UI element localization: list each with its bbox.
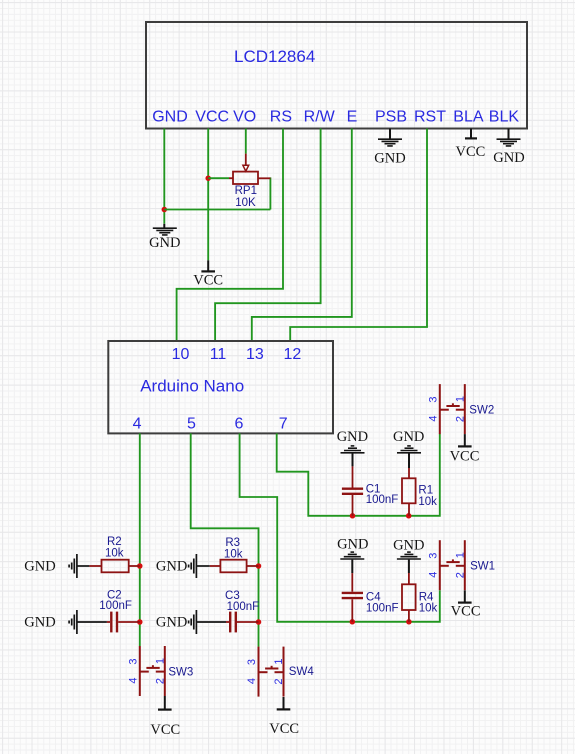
- svg-text:1: 1: [454, 396, 466, 402]
- R4 label: [419, 592, 434, 604]
- SW3 pin 1: [154, 658, 166, 664]
- GND net label R4: [393, 537, 424, 553]
- svg-text:4: 4: [127, 677, 139, 683]
- SW4 pin 2: [273, 679, 285, 685]
- SW2 pin 2: [454, 416, 466, 422]
- svg-text:GND: GND: [156, 615, 187, 631]
- switch SW1: [440, 540, 465, 590]
- LCD pin label R/W: [304, 109, 336, 126]
- svg-text:BLK: BLK: [489, 109, 520, 126]
- ground symbol LCD GND: [153, 224, 177, 235]
- svg-text:5: 5: [187, 416, 196, 433]
- vcc symbol SW2: [458, 434, 472, 446]
- potentiometer RP1: [229, 154, 270, 184]
- ground symbol R4: [397, 552, 421, 573]
- Arduino pin label 10: [172, 346, 190, 363]
- vcc symbol SW4: [277, 697, 291, 709]
- svg-text:LCD12864: LCD12864: [234, 47, 315, 66]
- svg-text:GND: GND: [337, 537, 368, 553]
- svg-text:GND: GND: [24, 559, 55, 575]
- C4 value 100nF: [366, 603, 399, 615]
- svg-text:11: 11: [210, 346, 227, 363]
- VCC net label SW4: [269, 721, 299, 737]
- SW4 label: [289, 666, 315, 678]
- LCD12864 module block: [146, 22, 527, 129]
- svg-text:VCC: VCC: [269, 721, 299, 737]
- GND net label C4: [337, 537, 368, 553]
- R1 label: [418, 484, 433, 496]
- switch SW3: [140, 646, 165, 696]
- vcc symbol LCD VCC: [201, 260, 215, 271]
- vcc symbol BLA: [465, 129, 477, 139]
- wire RST to pin 12: [290, 129, 427, 342]
- svg-text:4: 4: [427, 572, 439, 578]
- svg-text:12: 12: [284, 346, 302, 363]
- wire VCC to RP1 left: [208, 177, 229, 179]
- svg-text:C3: C3: [225, 590, 240, 602]
- svg-text:GND: GND: [24, 615, 55, 631]
- svg-text:R1: R1: [418, 484, 433, 496]
- svg-text:SW1: SW1: [470, 561, 495, 573]
- wire pin 7 chain: [277, 433, 440, 515]
- svg-text:10: 10: [172, 346, 190, 363]
- C1 value 100nF: [366, 494, 399, 506]
- GND net label BLK: [493, 150, 524, 166]
- svg-text:SW3: SW3: [168, 667, 193, 679]
- wire LCD VCC down: [207, 129, 209, 261]
- Arduino pin label 6: [235, 416, 244, 433]
- SW4 pin 4: [246, 678, 258, 684]
- svg-text:2: 2: [454, 572, 466, 578]
- GND net label C1: [337, 429, 368, 445]
- SW1 pin 2: [454, 572, 466, 578]
- vcc symbol SW3: [158, 696, 172, 710]
- svg-text:VCC: VCC: [451, 603, 481, 619]
- LCD pin label VCC: [195, 109, 229, 126]
- SW4 pin 1: [273, 659, 285, 665]
- C4 label: [366, 592, 381, 604]
- R1 value 10k: [418, 496, 437, 508]
- ground symbol C1: [341, 446, 365, 467]
- junction R1: [406, 513, 412, 519]
- svg-text:3: 3: [427, 397, 439, 403]
- svg-text:R2: R2: [107, 536, 122, 548]
- svg-text:10k: 10k: [419, 603, 438, 615]
- switch SW2: [440, 384, 465, 434]
- wire GND to RP1 bottom: [164, 209, 270, 211]
- svg-text:VCC: VCC: [150, 722, 180, 738]
- Arduino Nano title: [140, 377, 244, 396]
- C1 label: [366, 483, 381, 495]
- C2 value 100nF: [99, 600, 132, 612]
- ground symbol C2: [69, 610, 77, 634]
- svg-text:3: 3: [246, 659, 258, 665]
- svg-text:RP1: RP1: [235, 185, 257, 197]
- C3 label: [225, 590, 240, 602]
- wire pin 5 chain: [191, 433, 259, 646]
- ground symbol C3: [189, 610, 197, 634]
- LCD pin label VO: [233, 109, 256, 126]
- vcc symbol SW1: [458, 590, 472, 602]
- svg-text:6: 6: [235, 416, 244, 433]
- svg-text:4: 4: [246, 678, 258, 684]
- C2 label: [107, 589, 122, 601]
- svg-text:SW2: SW2: [469, 404, 494, 416]
- wire GND to C3: [196, 621, 226, 623]
- LCD pin label RST: [414, 109, 446, 126]
- C3 value 100nF: [227, 601, 260, 613]
- svg-text:100nF: 100nF: [366, 494, 399, 506]
- junction C1: [350, 513, 356, 519]
- junction R2: [137, 563, 143, 569]
- svg-text:3: 3: [127, 658, 139, 664]
- wire GND to R2: [77, 565, 90, 567]
- RP1 label: [235, 185, 257, 197]
- GND net label PSB: [374, 150, 405, 166]
- Arduino pin label 7: [279, 416, 288, 433]
- svg-text:SW4: SW4: [289, 666, 315, 678]
- svg-text:2: 2: [454, 416, 466, 422]
- RP1 value 10K: [235, 197, 256, 209]
- Arduino Nano block: [108, 341, 333, 433]
- ground symbol PSB: [378, 129, 402, 146]
- svg-text:VCC: VCC: [450, 449, 480, 465]
- ground symbol R3: [189, 554, 197, 578]
- VCC net label SW2: [450, 449, 480, 465]
- wire RP1 right vertical: [269, 177, 271, 209]
- SW2 label: [469, 404, 494, 416]
- ground symbol C4: [340, 552, 364, 573]
- resistor R2: [89, 560, 139, 573]
- VCC net label SW3: [150, 722, 180, 738]
- svg-text:1: 1: [454, 552, 466, 558]
- Arduino pin label 4: [133, 416, 142, 433]
- SW1 label: [470, 561, 495, 573]
- capacitor C4: [342, 573, 363, 622]
- LCD pin label RS: [270, 109, 292, 126]
- SW2 pin 1: [454, 396, 466, 402]
- junction GND node: [162, 207, 168, 213]
- wire GND to C2: [77, 621, 107, 623]
- svg-text:100nF: 100nF: [366, 603, 399, 615]
- resistor R4: [402, 573, 416, 622]
- svg-text:GND: GND: [152, 109, 188, 126]
- R4 value 10k: [419, 603, 438, 615]
- GND net label R1: [393, 429, 424, 445]
- junction R4: [406, 619, 412, 625]
- wire GND to R3: [196, 565, 209, 567]
- svg-text:10k: 10k: [224, 549, 243, 561]
- svg-text:Arduino Nano: Arduino Nano: [140, 377, 244, 396]
- R2 value 10k: [105, 548, 124, 560]
- SW2 pin 3: [427, 397, 439, 403]
- Arduino pin label 11: [210, 346, 227, 363]
- SW3 pin 4: [127, 677, 139, 683]
- capacitor C3: [226, 612, 259, 633]
- wire pin 4 chain: [139, 433, 141, 646]
- svg-text:GND: GND: [393, 537, 424, 553]
- SW3 pin 3: [127, 658, 139, 664]
- LCD pin label PSB: [375, 109, 407, 126]
- R2 label: [107, 536, 122, 548]
- svg-text:VCC: VCC: [455, 144, 485, 160]
- VCC net label SW1: [451, 603, 481, 619]
- svg-text:7: 7: [279, 416, 288, 433]
- LCD12864 title: [234, 47, 315, 66]
- wire LCD GND down: [163, 129, 165, 224]
- svg-text:GND: GND: [337, 429, 368, 445]
- ground symbol R1: [397, 446, 421, 468]
- svg-text:100nF: 100nF: [227, 601, 260, 613]
- junction C2: [137, 619, 143, 625]
- SW3 label: [168, 667, 193, 679]
- svg-text:R3: R3: [225, 537, 240, 549]
- Arduino pin label 5: [187, 416, 196, 433]
- Arduino pin label 13: [246, 346, 264, 363]
- svg-text:RST: RST: [414, 109, 446, 126]
- svg-text:RS: RS: [270, 109, 292, 126]
- VCC net label: [193, 272, 223, 288]
- svg-text:GND: GND: [149, 235, 180, 251]
- SW4 pin 3: [246, 659, 258, 665]
- svg-text:3: 3: [427, 553, 439, 559]
- junction C3: [256, 619, 262, 625]
- GND net label C2: [24, 615, 55, 631]
- LCD pin label BLK: [489, 109, 520, 126]
- SW1 pin 4: [427, 572, 439, 578]
- svg-text:BLA: BLA: [453, 109, 484, 126]
- svg-text:10K: 10K: [235, 197, 256, 209]
- LCD pin label GND: [152, 109, 188, 126]
- GND net label R2: [24, 559, 55, 575]
- R3 label: [225, 537, 240, 549]
- svg-text:VCC: VCC: [195, 109, 229, 126]
- svg-text:1: 1: [273, 659, 285, 665]
- capacitor C2: [107, 612, 140, 633]
- wire E to pin 13: [252, 129, 352, 342]
- GND net label C3: [156, 615, 187, 631]
- svg-text:GND: GND: [374, 150, 405, 166]
- svg-text:13: 13: [246, 346, 264, 363]
- SW2 pin 4: [427, 416, 439, 422]
- SW1 pin 3: [427, 553, 439, 559]
- svg-text:R/W: R/W: [304, 109, 336, 126]
- GND net label R3: [156, 559, 187, 575]
- svg-text:10k: 10k: [418, 496, 437, 508]
- wire R/W to pin 11: [215, 129, 321, 342]
- svg-text:PSB: PSB: [375, 109, 407, 126]
- LCD pin label BLA: [453, 109, 484, 126]
- junction C4: [350, 619, 356, 625]
- svg-text:4: 4: [133, 416, 142, 433]
- resistor R1: [402, 468, 416, 516]
- switch SW4: [259, 647, 284, 697]
- svg-text:E: E: [347, 109, 358, 126]
- SW1 pin 1: [454, 552, 466, 558]
- junction R3: [256, 563, 262, 569]
- wire RS to pin 10: [177, 129, 283, 342]
- wire VO down: [245, 129, 247, 154]
- SW3 pin 2: [154, 678, 166, 684]
- svg-text:GND: GND: [393, 429, 424, 445]
- svg-text:4: 4: [427, 416, 439, 422]
- svg-text:GND: GND: [156, 559, 187, 575]
- wire pin 6 chain: [240, 433, 440, 621]
- capacitor C1: [342, 466, 363, 515]
- resistor R3: [210, 560, 259, 573]
- svg-text:VCC: VCC: [193, 272, 223, 288]
- svg-text:2: 2: [273, 679, 285, 685]
- svg-text:10k: 10k: [105, 548, 124, 560]
- R3 value 10k: [224, 549, 243, 561]
- Arduino pin label 12: [284, 346, 302, 363]
- GND net label: [149, 235, 180, 251]
- ground symbol R2: [69, 554, 77, 578]
- svg-text:GND: GND: [493, 150, 524, 166]
- svg-text:100nF: 100nF: [99, 600, 132, 612]
- LCD pin label E: [347, 109, 358, 126]
- VCC net label BLA: [455, 144, 485, 160]
- svg-text:VO: VO: [233, 109, 256, 126]
- svg-text:2: 2: [154, 678, 166, 684]
- ground symbol BLK: [497, 129, 521, 146]
- junction VCC RP1: [205, 175, 211, 181]
- svg-text:1: 1: [154, 658, 166, 664]
